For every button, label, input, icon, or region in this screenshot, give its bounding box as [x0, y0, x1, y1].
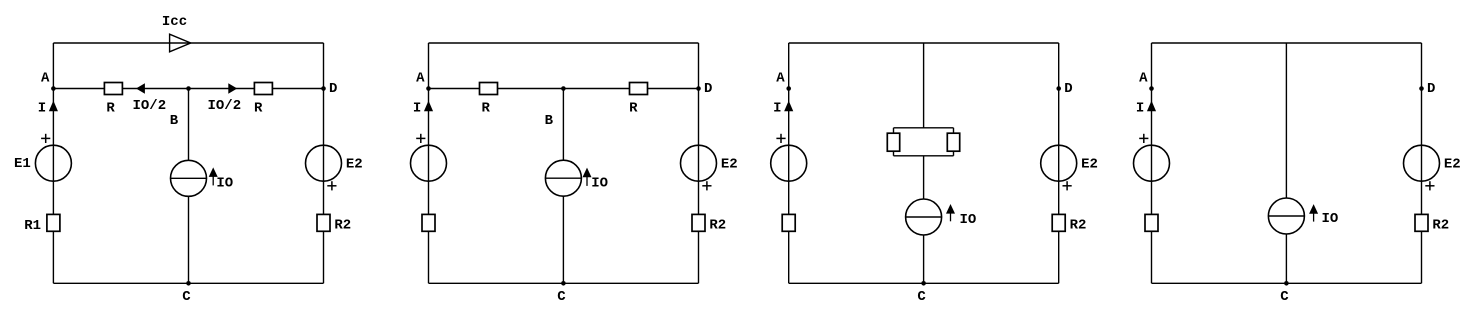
svg-text:R: R	[481, 100, 490, 116]
svg-text:A: A	[416, 70, 425, 86]
svg-text:D: D	[329, 81, 337, 97]
svg-text:E2: E2	[346, 156, 363, 172]
svg-text:A: A	[776, 70, 785, 86]
svg-text:C: C	[1280, 289, 1289, 305]
svg-text:E2: E2	[1081, 156, 1098, 172]
svg-text:R1: R1	[24, 218, 41, 234]
svg-text:R: R	[106, 100, 115, 116]
svg-text:Icc: Icc	[162, 14, 187, 30]
svg-text:I: I	[38, 101, 46, 117]
svg-text:B: B	[545, 113, 554, 129]
svg-text:R2: R2	[1432, 217, 1449, 233]
svg-text:E1: E1	[14, 156, 31, 172]
svg-text:I: I	[1136, 101, 1144, 117]
svg-text:I: I	[413, 101, 421, 117]
svg-text:E2: E2	[1444, 156, 1461, 172]
svg-text:R2: R2	[709, 217, 726, 233]
svg-text:R: R	[629, 100, 638, 116]
svg-text:D: D	[1427, 81, 1435, 97]
svg-text:IO: IO	[216, 175, 233, 191]
svg-text:A: A	[41, 70, 50, 86]
svg-text:C: C	[557, 289, 566, 305]
svg-text:IO/2: IO/2	[132, 98, 166, 114]
svg-text:IO: IO	[960, 212, 977, 228]
svg-text:R: R	[254, 100, 263, 116]
svg-text:IO: IO	[591, 175, 608, 191]
svg-text:B: B	[170, 113, 179, 129]
svg-text:IO: IO	[1322, 211, 1339, 227]
svg-text:R2: R2	[1070, 217, 1087, 233]
svg-text:I: I	[773, 101, 781, 117]
svg-text:R2: R2	[334, 217, 351, 233]
svg-text:E2: E2	[721, 156, 738, 172]
svg-text:IO/2: IO/2	[207, 98, 241, 114]
svg-text:D: D	[704, 81, 712, 97]
svg-text:D: D	[1064, 81, 1072, 97]
svg-text:A: A	[1139, 70, 1148, 86]
svg-text:C: C	[917, 289, 926, 305]
svg-text:C: C	[182, 289, 191, 305]
